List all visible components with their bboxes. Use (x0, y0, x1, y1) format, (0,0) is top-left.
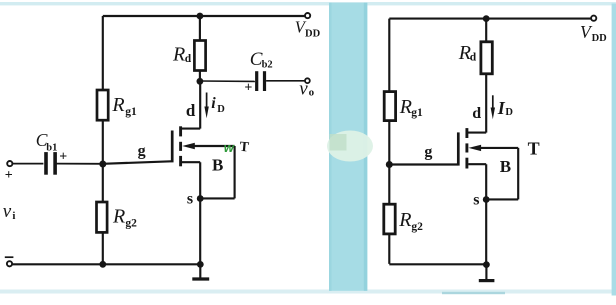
middle cyan band (329, 3, 367, 291)
svg-text:D: D (217, 104, 225, 115)
top light cyan strip (0, 2, 616, 5)
transistor T channel dashes right (465, 128, 468, 138)
svg-text:R: R (112, 205, 125, 227)
resistor Rg1 right (384, 92, 395, 121)
svg-text:B: B (500, 157, 511, 176)
svg-text:T: T (528, 139, 540, 159)
resistor Rg2 left (97, 202, 108, 232)
current arrow ID right (492, 95, 494, 113)
wire left vertical bias (102, 16, 104, 264)
terminal VDD right (591, 16, 596, 21)
svg-text:g1: g1 (411, 107, 423, 119)
svg-text:i: i (12, 210, 15, 222)
resistor Rd right (485, 19, 487, 42)
right edge cyan strip (612, 4, 616, 296)
wire source lead right (468, 163, 486, 165)
svg-text:b1: b1 (46, 142, 57, 153)
wire top rail left (103, 15, 305, 17)
svg-text:R: R (172, 43, 185, 65)
node source junction right (483, 196, 490, 203)
svg-text:d: d (185, 53, 192, 65)
svg-text:d: d (470, 52, 477, 64)
ground left (199, 264, 201, 278)
wire source lead left (182, 161, 200, 163)
wire body lead left with arrow (182, 143, 195, 149)
svg-text:b2: b2 (262, 60, 273, 71)
node drain junction left (197, 78, 204, 85)
current arrow iD left (206, 93, 208, 113)
bottom light cyan strip (0, 290, 616, 294)
wire gate right (389, 163, 457, 165)
ground right (485, 265, 487, 280)
wire left vertical bias right (388, 19, 390, 264)
node gate junction right (386, 161, 393, 168)
terminal input + (7, 161, 12, 166)
svg-text:DD: DD (592, 33, 608, 44)
svg-text:+: + (5, 168, 13, 183)
svg-text:+: + (244, 81, 252, 96)
svg-text:v: v (3, 201, 12, 222)
terminal vo (305, 78, 310, 83)
wire drain down to mosfet (199, 81, 201, 128)
svg-text:d: d (472, 105, 481, 122)
svg-text:D: D (505, 107, 513, 118)
node bottom rail Rg2 (99, 261, 106, 268)
svg-text:g: g (138, 143, 146, 160)
transistor T1 gate bar (171, 131, 174, 163)
node top rail junction (197, 13, 204, 20)
wire drain lead right (467, 132, 486, 134)
wire bottom rail left (13, 263, 201, 265)
svg-text:w: w (224, 140, 235, 155)
svg-text:g1: g1 (125, 106, 137, 118)
wire bottom rail right (389, 263, 486, 265)
wire body lead right with arrow (469, 145, 482, 151)
transistor T gate bar right (457, 132, 460, 165)
terminal VDD left (305, 13, 310, 18)
svg-text:o: o (309, 86, 315, 98)
svg-text:B: B (212, 156, 223, 175)
terminal input minus (7, 261, 12, 266)
svg-text:i: i (211, 95, 216, 112)
svg-text:+: + (59, 150, 67, 165)
wire Cb1 to gate bar (56, 163, 102, 165)
svg-text:DD: DD (305, 28, 321, 39)
svg-text:g2: g2 (125, 217, 137, 229)
node bottom ground junction left (197, 261, 204, 268)
svg-text:g: g (424, 144, 432, 161)
svg-text:s: s (473, 192, 479, 209)
svg-text:s: s (187, 190, 193, 207)
svg-text:R: R (399, 96, 412, 118)
node source junction left (197, 195, 204, 202)
capacitor Cb1 (44, 152, 48, 175)
capacitor Cb2 (255, 71, 258, 91)
node bottom ground junction right (483, 261, 490, 268)
resistor Rg1 left (97, 90, 108, 120)
svg-text:g2: g2 (411, 221, 423, 233)
wire top rail right (389, 18, 591, 20)
svg-text:R: R (398, 209, 411, 231)
node gate junction left (99, 161, 106, 168)
wire input to Cb1 (13, 163, 44, 165)
wire Cb2 to vo (266, 80, 305, 82)
resistor Rg2 right (384, 204, 395, 234)
svg-text:R: R (111, 94, 124, 116)
svg-text:d: d (186, 101, 196, 120)
resistor Rd left (199, 16, 201, 41)
watermark blob in band (327, 131, 373, 162)
node top rail junction right (483, 15, 490, 22)
wire output tap (200, 80, 255, 82)
label minus input (5, 256, 14, 258)
transistor T1 channel dashes (179, 126, 182, 136)
svg-text:v: v (299, 79, 308, 100)
